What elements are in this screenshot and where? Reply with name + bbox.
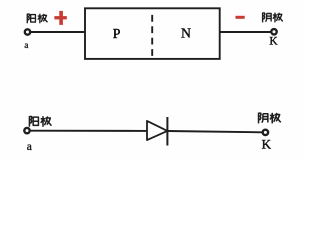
svg-text:P: P xyxy=(113,26,121,41)
anode label 阳极 (bottom) xyxy=(29,116,51,127)
terminal K (top) xyxy=(271,29,276,34)
dashed junction divider xyxy=(151,15,153,59)
terminal K (bottom) xyxy=(263,130,268,135)
svg-text:K: K xyxy=(262,136,272,151)
wire: terminal a to diode xyxy=(30,130,147,132)
svg-text:a: a xyxy=(24,41,29,51)
terminal a (top) xyxy=(25,29,30,34)
wire: box to terminal K xyxy=(220,31,272,33)
minus sign (red) xyxy=(236,16,245,19)
svg-text:N: N xyxy=(181,26,191,41)
terminal a (bottom) xyxy=(24,128,29,133)
wire: diode to terminal K xyxy=(167,131,262,132)
PN junction box xyxy=(85,8,220,59)
svg-text:K: K xyxy=(269,36,278,48)
cathode label 阴极 (bottom) xyxy=(259,113,281,124)
diode cathode bar xyxy=(166,117,168,146)
diode D (triangle) xyxy=(147,121,167,140)
plus sign (red) xyxy=(54,11,66,25)
anode label 阳极 (top left) xyxy=(27,14,47,24)
cathode label 阴极 (top right) xyxy=(263,13,283,23)
svg-text:a: a xyxy=(27,141,32,153)
wire: terminal a to box xyxy=(31,31,86,33)
